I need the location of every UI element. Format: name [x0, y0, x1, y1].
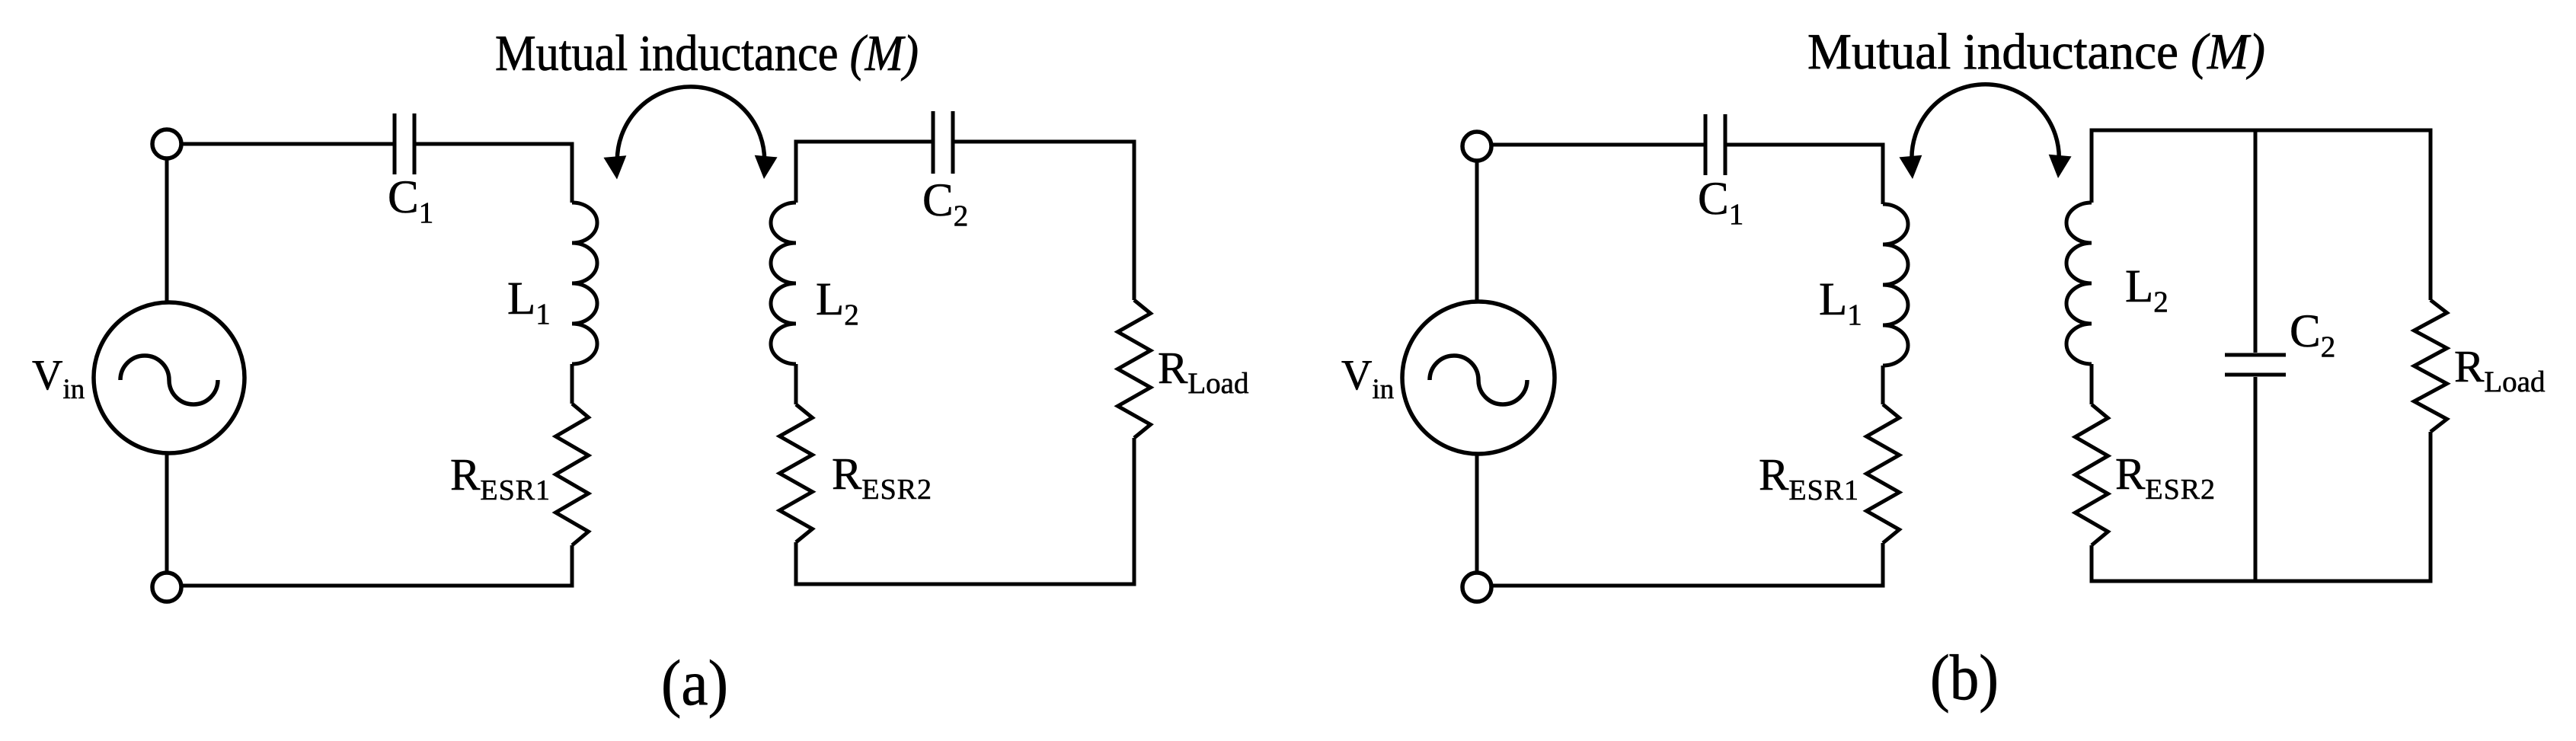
resistor R_ESR1 (a) zigzag — [556, 404, 589, 545]
Vin sine symbol (a) — [120, 356, 218, 404]
svg-text:C2: C2 — [2290, 306, 2335, 363]
svg-text:L2: L2 — [2125, 261, 2169, 318]
resistor R_Load (a) zigzag — [1118, 300, 1151, 438]
coupling arrowhead right (a) — [753, 155, 778, 180]
svg-text:RESR2: RESR2 — [2115, 449, 2216, 506]
wire: L1 to R_ESR1 (b) — [1881, 366, 1885, 404]
coupling arrowhead left (b) — [1899, 155, 1924, 180]
wire: loop2 top wire (b) — [2092, 129, 2431, 133]
svg-text:Vin: Vin — [32, 352, 85, 405]
wire: C2 branch lower (b) — [2254, 377, 2258, 581]
wire: C2 to loop2 top-right (a) — [954, 140, 1134, 144]
svg-text:(a): (a) — [661, 647, 728, 719]
terminal node bottom (b) — [1462, 573, 1491, 602]
svg-text:C2: C2 — [922, 175, 968, 232]
wire: bottom wire (b) — [1477, 584, 1883, 588]
svg-text:Mutual inductance (M): Mutual inductance (M) — [1807, 24, 2265, 80]
wire: top wire terminal to C1 (b) — [1477, 143, 1704, 147]
capacitor C1 (a) right plate — [413, 113, 417, 174]
AC source Vin circle (b) — [1402, 302, 1555, 454]
resistor R_Load (b) zigzag — [2415, 300, 2447, 432]
wire: loop2 right branch above R_Load (a) — [1133, 140, 1136, 301]
wire: loop2 bottom wire (b) — [2092, 580, 2431, 583]
wire: L2 to R_ESR2 (a) — [794, 364, 798, 404]
terminal node top (a) — [152, 129, 181, 158]
coupling arrowhead left (a) — [603, 155, 628, 180]
wire: top wire terminal to C1 (a) — [167, 142, 393, 146]
inductor L2 (b) coil — [2066, 203, 2092, 364]
wire: C1 to top-right corner (a) — [416, 142, 572, 146]
wire: loop2 bottom wire (a) — [796, 583, 1134, 586]
inductor L2 (a) coil — [771, 203, 796, 364]
capacitor C2 (b) top plate — [2225, 353, 2286, 357]
mutual-inductance coupling arc (b) — [1912, 85, 2059, 164]
svg-text:(b): (b) — [1930, 642, 1999, 714]
AC source Vin circle (a) — [94, 302, 244, 453]
svg-text:C1: C1 — [1698, 174, 1743, 231]
wire: Vin left branch (a) — [165, 144, 169, 586]
wire: Vin left branch (b) — [1475, 145, 1479, 586]
wire: R_ESR1 to bottom wire (b) — [1881, 543, 1885, 588]
Vin sine symbol (b) — [1430, 356, 1527, 404]
wire: right branch above L1 (a) — [570, 142, 574, 203]
wire: R_Load to bottom (a) — [1133, 438, 1136, 586]
terminal node top (b) — [1462, 132, 1491, 161]
svg-text:L2: L2 — [816, 274, 859, 331]
svg-text:RESR2: RESR2 — [832, 449, 932, 506]
svg-text:L1: L1 — [1819, 274, 1862, 331]
capacitor C1 (b) left plate — [1704, 114, 1708, 175]
terminal node bottom (a) — [152, 573, 181, 602]
capacitor C2 (b) bottom plate — [2225, 373, 2286, 377]
svg-text:RESR1: RESR1 — [1759, 449, 1859, 506]
coupling arrowhead right (b) — [2047, 155, 2072, 180]
wire: C1 to top-right corner (b) — [1727, 143, 1883, 147]
capacitor C1 (b) right plate — [1724, 114, 1727, 175]
wire: loop2 left branch top (b) — [2090, 129, 2094, 203]
svg-text:RLoad: RLoad — [1158, 343, 1249, 400]
svg-text:L1: L1 — [507, 273, 551, 331]
svg-text:RLoad: RLoad — [2454, 341, 2546, 398]
svg-text:Mutual inductance (M): Mutual inductance (M) — [495, 25, 919, 81]
capacitor C2 (a) left plate — [932, 111, 935, 174]
wire: R_ESR2 to bottom (a) — [794, 542, 798, 586]
wire: R_ESR1 to bottom wire (a) — [570, 545, 574, 588]
inductor L1 (a) coil — [572, 203, 597, 364]
resistor R_ESR1 (b) zigzag — [1867, 404, 1900, 543]
wire: R_ESR2 to bottom (b) — [2090, 545, 2094, 583]
wire: C2 branch upper (b) — [2254, 130, 2258, 353]
svg-text:C1: C1 — [388, 172, 433, 229]
wire: L2 to R_ESR2 (b) — [2090, 364, 2094, 404]
wire: bottom wire (a) — [167, 584, 572, 588]
wire: loop2 left branch top (a) — [794, 140, 798, 203]
wire: right branch above L1 (b) — [1881, 143, 1885, 205]
mutual-inductance coupling arc (a) — [617, 87, 764, 164]
inductor L1 (b) coil — [1883, 204, 1908, 366]
wire: R_Load to bottom (b) — [2429, 432, 2433, 583]
wire: loop2 right branch above R_Load (b) — [2429, 129, 2433, 301]
svg-text:Vin: Vin — [1341, 352, 1394, 405]
resistor R_ESR2 (a) zigzag — [780, 404, 813, 542]
wire: L1 to R_ESR1 (a) — [570, 364, 574, 404]
capacitor C2 (a) right plate — [951, 111, 955, 174]
svg-text:RESR1: RESR1 — [450, 449, 551, 506]
capacitor C1 (a) left plate — [393, 113, 397, 174]
wire: loop2 top wire to C2 (a) — [796, 140, 932, 144]
resistor R_ESR2 (b) zigzag — [2076, 404, 2108, 545]
